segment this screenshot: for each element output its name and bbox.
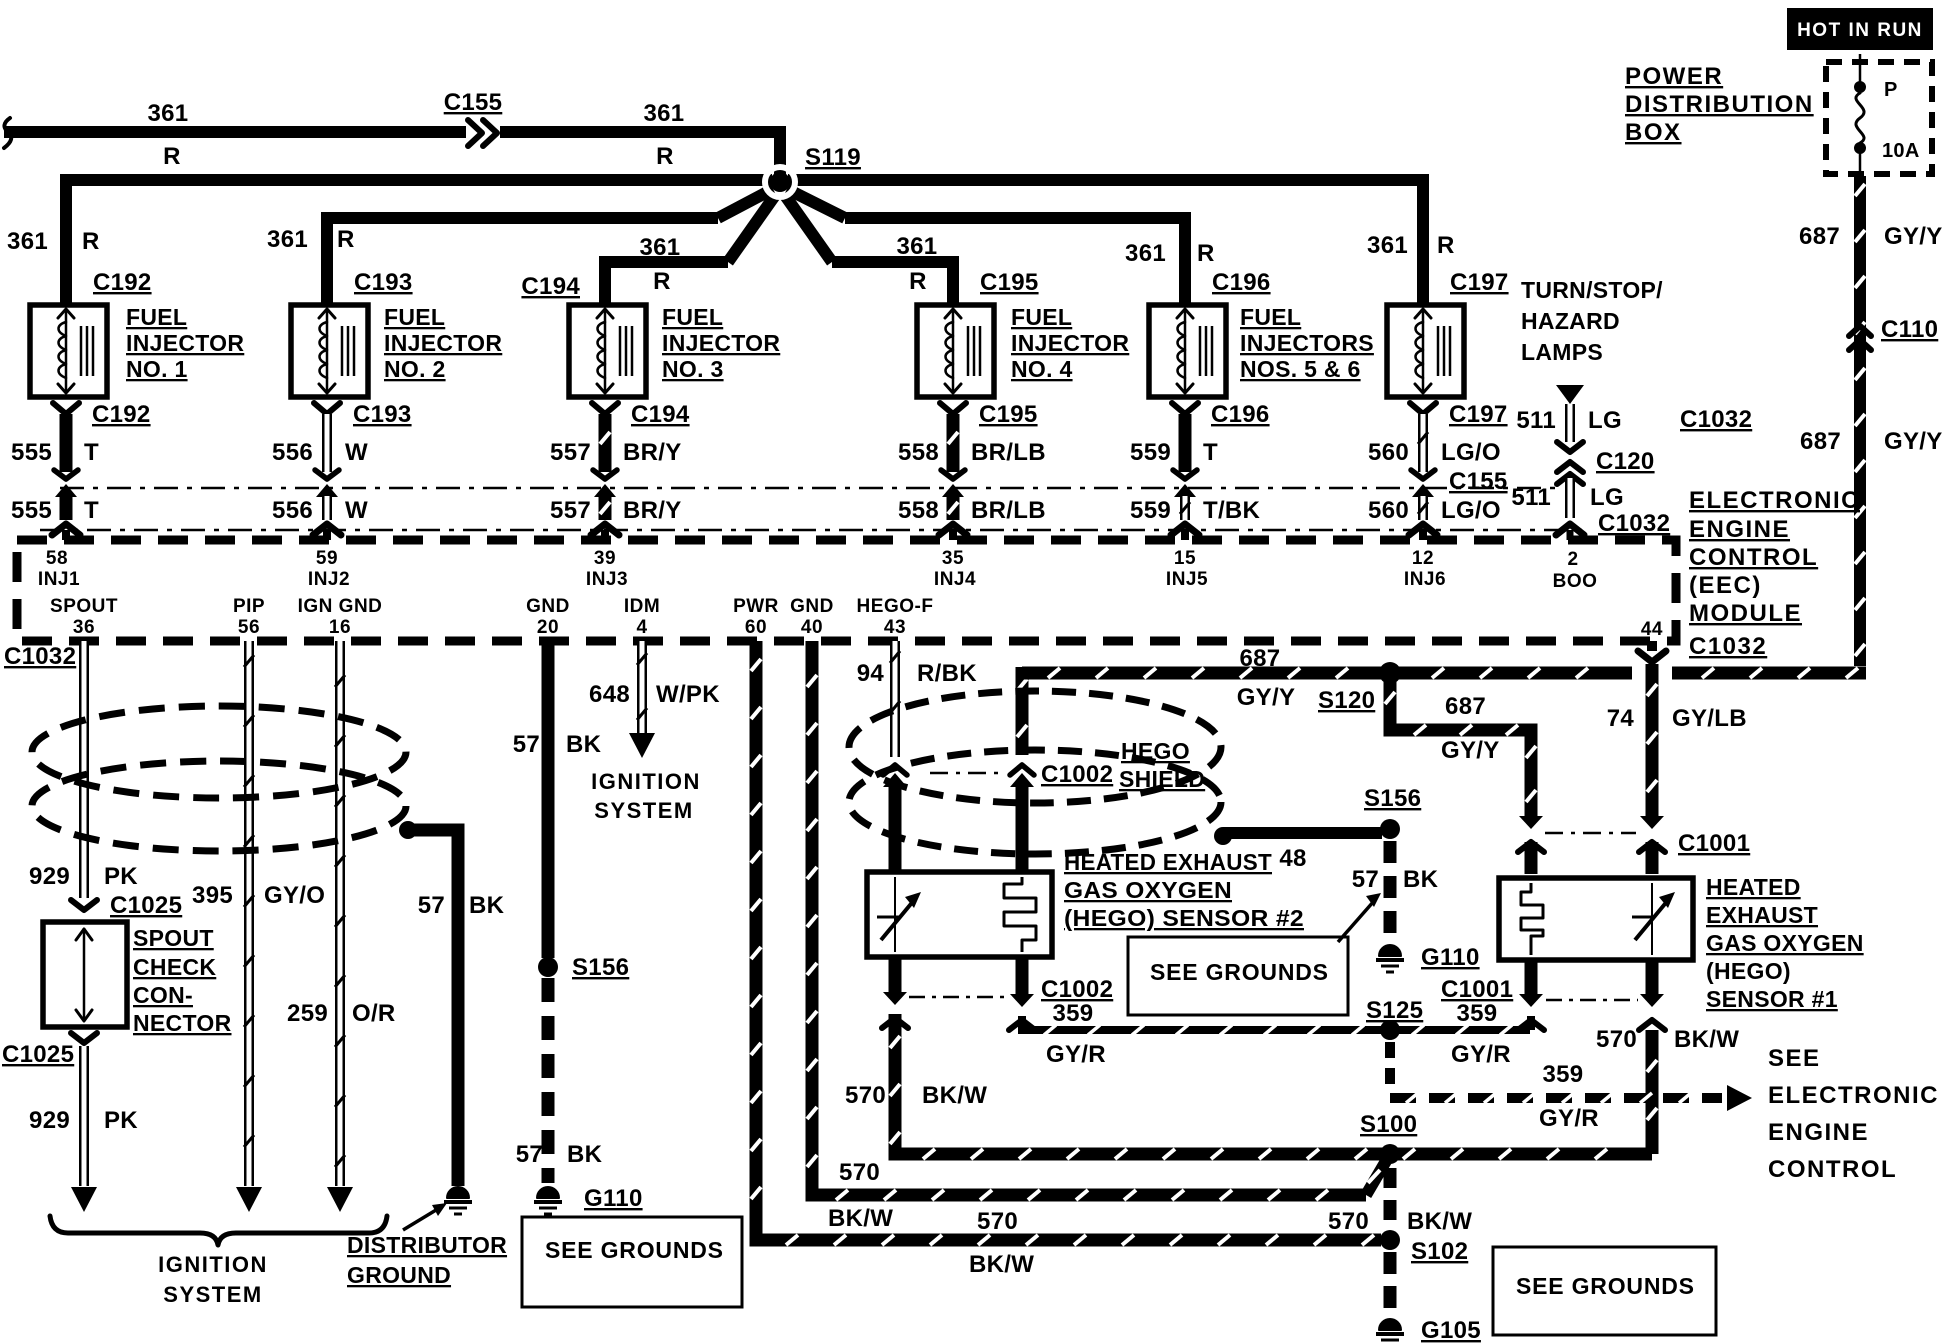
svg-text:GY/LB: GY/LB (1672, 705, 1747, 732)
svg-text:BK: BK (567, 1141, 603, 1168)
svg-text:560: 560 (1368, 497, 1409, 524)
svg-text:GAS OXYGEN: GAS OXYGEN (1706, 930, 1864, 956)
svg-text:CON-: CON- (133, 982, 193, 1008)
svg-text:57: 57 (1352, 866, 1379, 893)
svg-text:C193: C193 (353, 401, 412, 428)
svg-text:558: 558 (898, 439, 939, 466)
svg-text:C1025: C1025 (2, 1041, 74, 1068)
svg-text:361: 361 (644, 100, 685, 127)
svg-text:ENGINE: ENGINE (1689, 516, 1790, 543)
svg-text:C194: C194 (521, 273, 580, 300)
svg-text:C194: C194 (631, 401, 690, 428)
svg-text:15: 15 (1174, 548, 1196, 569)
svg-text:GROUND: GROUND (347, 1262, 451, 1288)
svg-text:IGNITION: IGNITION (591, 769, 701, 794)
svg-text:359: 359 (1053, 1000, 1094, 1027)
svg-text:W: W (345, 497, 368, 524)
svg-text:SEE GROUNDS: SEE GROUNDS (545, 1237, 724, 1263)
svg-text:NO. 2: NO. 2 (384, 356, 446, 382)
svg-text:T: T (84, 497, 99, 524)
svg-text:LG: LG (1588, 407, 1622, 434)
svg-text:G110: G110 (1421, 944, 1480, 971)
svg-text:44: 44 (1641, 619, 1663, 640)
svg-text:G105: G105 (1421, 1317, 1481, 1344)
svg-text:361: 361 (1125, 240, 1166, 267)
svg-text:43: 43 (884, 617, 906, 638)
svg-text:INJ6: INJ6 (1404, 569, 1446, 590)
svg-text:4: 4 (636, 617, 647, 638)
svg-text:57: 57 (516, 1141, 543, 1168)
svg-text:R/BK: R/BK (917, 660, 977, 687)
svg-text:SYSTEM: SYSTEM (594, 798, 693, 823)
svg-text:SENSOR #1: SENSOR #1 (1706, 986, 1838, 1012)
svg-text:555: 555 (11, 439, 52, 466)
svg-text:INJECTOR: INJECTOR (384, 330, 502, 356)
svg-text:SEE GROUNDS: SEE GROUNDS (1150, 959, 1329, 985)
svg-text:557: 557 (550, 439, 591, 466)
svg-text:361: 361 (148, 100, 189, 127)
svg-text:GY/Y: GY/Y (1884, 223, 1942, 250)
svg-text:40: 40 (801, 617, 823, 638)
svg-text:S156: S156 (1364, 785, 1421, 812)
svg-text:HOT IN RUN: HOT IN RUN (1797, 20, 1923, 41)
svg-text:GY/O: GY/O (264, 882, 325, 909)
svg-text:POWER: POWER (1625, 63, 1723, 90)
svg-text:94: 94 (857, 660, 885, 687)
svg-text:S156: S156 (572, 954, 629, 981)
svg-text:S119: S119 (805, 144, 861, 171)
svg-text:C155: C155 (1449, 468, 1508, 495)
svg-text:687: 687 (1240, 645, 1281, 672)
svg-text:36: 36 (73, 617, 95, 638)
svg-text:MODULE: MODULE (1689, 600, 1802, 627)
svg-text:NO. 1: NO. 1 (126, 356, 188, 382)
svg-text:GY/R: GY/R (1046, 1041, 1106, 1068)
svg-text:BK/W: BK/W (828, 1205, 893, 1232)
svg-text:NECTOR: NECTOR (133, 1010, 232, 1036)
svg-text:HAZARD: HAZARD (1521, 308, 1620, 334)
svg-text:INJ2: INJ2 (308, 569, 350, 590)
svg-text:INJ5: INJ5 (1166, 569, 1208, 590)
svg-text:C120: C120 (1596, 448, 1655, 475)
svg-text:PWR: PWR (733, 596, 779, 617)
svg-text:570: 570 (845, 1082, 886, 1109)
svg-text:PK: PK (104, 863, 138, 890)
svg-text:R: R (1437, 232, 1455, 259)
svg-text:BR/LB: BR/LB (971, 439, 1046, 466)
svg-text:PK: PK (104, 1107, 138, 1134)
svg-text:T: T (84, 439, 99, 466)
svg-text:511: 511 (1516, 407, 1556, 434)
svg-text:IDM: IDM (624, 596, 660, 617)
svg-text:C1032: C1032 (4, 643, 76, 670)
svg-text:GND: GND (526, 596, 570, 617)
svg-text:INJ3: INJ3 (586, 569, 628, 590)
svg-text:687: 687 (1445, 693, 1486, 720)
svg-text:361: 361 (1367, 232, 1408, 259)
svg-text:SPOUT: SPOUT (133, 925, 214, 951)
svg-text:S100: S100 (1360, 1111, 1417, 1138)
svg-text:LG/O: LG/O (1441, 497, 1501, 524)
svg-text:359: 359 (1457, 1000, 1498, 1027)
svg-text:GND: GND (790, 596, 834, 617)
svg-text:12: 12 (1412, 548, 1434, 569)
svg-text:C1002: C1002 (1041, 976, 1113, 1003)
svg-text:INJECTOR: INJECTOR (1011, 330, 1129, 356)
svg-text:BOO: BOO (1553, 571, 1598, 592)
svg-text:S102: S102 (1411, 1238, 1468, 1265)
svg-text:C193: C193 (354, 269, 413, 296)
svg-text:929: 929 (29, 863, 70, 890)
svg-text:361: 361 (640, 234, 681, 261)
svg-text:BK/W: BK/W (1674, 1026, 1739, 1053)
svg-text:C1001: C1001 (1678, 830, 1750, 857)
svg-text:GAS OXYGEN: GAS OXYGEN (1064, 877, 1232, 903)
svg-text:C195: C195 (980, 269, 1039, 296)
svg-text:560: 560 (1368, 439, 1409, 466)
svg-text:BK/W: BK/W (969, 1251, 1034, 1278)
svg-text:GY/Y: GY/Y (1237, 684, 1296, 711)
svg-text:GY/R: GY/R (1451, 1041, 1511, 1068)
svg-text:FUEL: FUEL (1240, 304, 1301, 330)
svg-text:2: 2 (1567, 549, 1578, 570)
svg-text:GY/R: GY/R (1539, 1105, 1599, 1132)
svg-text:C1032: C1032 (1689, 633, 1767, 660)
svg-text:LG/O: LG/O (1441, 439, 1501, 466)
svg-text:FUEL: FUEL (384, 304, 445, 330)
svg-text:R: R (656, 143, 674, 170)
svg-text:W: W (345, 439, 368, 466)
svg-text:557: 557 (550, 497, 591, 524)
svg-text:60: 60 (745, 617, 767, 638)
svg-text:10A: 10A (1882, 140, 1920, 162)
svg-text:GY/Y: GY/Y (1441, 737, 1500, 764)
svg-text:C195: C195 (979, 401, 1038, 428)
svg-text:NO. 3: NO. 3 (662, 356, 724, 382)
svg-text:929: 929 (29, 1107, 70, 1134)
svg-text:56: 56 (238, 617, 260, 638)
svg-text:ENGINE: ENGINE (1768, 1119, 1869, 1146)
svg-text:HEATED EXHAUST: HEATED EXHAUST (1064, 849, 1272, 875)
svg-text:INJECTOR: INJECTOR (662, 330, 780, 356)
svg-text:BOX: BOX (1625, 119, 1682, 146)
svg-text:39: 39 (594, 548, 616, 569)
svg-text:C196: C196 (1212, 269, 1271, 296)
svg-text:BK: BK (1403, 866, 1439, 893)
svg-text:57: 57 (513, 731, 540, 758)
svg-text:IGNITION: IGNITION (158, 1252, 268, 1277)
svg-text:570: 570 (1328, 1208, 1369, 1235)
svg-text:C192: C192 (92, 401, 151, 428)
svg-text:361: 361 (897, 233, 938, 260)
svg-text:57: 57 (418, 892, 445, 919)
svg-text:SHIELD: SHIELD (1119, 766, 1205, 792)
svg-text:C1032: C1032 (1680, 406, 1752, 433)
svg-text:BR/Y: BR/Y (623, 439, 682, 466)
svg-text:INJ1: INJ1 (38, 569, 80, 590)
svg-text:559: 559 (1130, 497, 1171, 524)
svg-text:FUEL: FUEL (126, 304, 187, 330)
svg-text:FUEL: FUEL (1011, 304, 1072, 330)
svg-text:687: 687 (1800, 428, 1841, 455)
svg-text:DISTRIBUTOR: DISTRIBUTOR (347, 1232, 507, 1258)
svg-text:SEE GROUNDS: SEE GROUNDS (1516, 1273, 1695, 1299)
svg-text:687: 687 (1799, 223, 1840, 250)
svg-text:R: R (1197, 240, 1215, 267)
svg-text:CHECK: CHECK (133, 954, 216, 980)
svg-text:EXHAUST: EXHAUST (1706, 902, 1818, 928)
svg-text:W/PK: W/PK (656, 681, 720, 708)
svg-text:R: R (82, 228, 100, 255)
svg-text:S120: S120 (1318, 687, 1375, 714)
svg-text:G110: G110 (584, 1185, 643, 1212)
svg-text:559: 559 (1130, 439, 1171, 466)
svg-text:58: 58 (46, 548, 68, 569)
svg-text:BR/LB: BR/LB (971, 497, 1046, 524)
svg-text:HEGO: HEGO (1121, 738, 1190, 764)
svg-text:SPOUT: SPOUT (50, 596, 118, 617)
svg-text:59: 59 (316, 548, 338, 569)
svg-text:(HEGO) SENSOR #2: (HEGO) SENSOR #2 (1064, 905, 1304, 931)
svg-text:INJECTOR: INJECTOR (126, 330, 244, 356)
svg-text:LG: LG (1590, 484, 1624, 511)
svg-text:ELECTRONIC: ELECTRONIC (1689, 487, 1860, 514)
svg-text:511: 511 (1511, 484, 1551, 511)
svg-text:16: 16 (329, 617, 351, 638)
svg-text:556: 556 (272, 497, 313, 524)
svg-text:BK: BK (469, 892, 505, 919)
svg-text:361: 361 (7, 228, 48, 255)
svg-text:C197: C197 (1449, 401, 1508, 428)
svg-text:T: T (1203, 439, 1218, 466)
svg-text:(HEGO): (HEGO) (1706, 958, 1791, 984)
svg-text:C1032: C1032 (1598, 510, 1670, 537)
svg-text:SYSTEM: SYSTEM (163, 1282, 262, 1307)
svg-text:74: 74 (1607, 705, 1635, 732)
svg-text:NOS. 5 & 6: NOS. 5 & 6 (1240, 356, 1361, 382)
svg-text:S125: S125 (1366, 997, 1423, 1024)
svg-text:FUEL: FUEL (662, 304, 723, 330)
svg-text:CONTROL: CONTROL (1768, 1156, 1897, 1183)
svg-text:570: 570 (977, 1208, 1018, 1235)
svg-text:INJ4: INJ4 (934, 569, 976, 590)
svg-text:C110: C110 (1881, 316, 1938, 343)
svg-text:PIP: PIP (233, 596, 265, 617)
svg-text:DISTRIBUTION: DISTRIBUTION (1625, 91, 1814, 118)
svg-text:BK/W: BK/W (1407, 1208, 1472, 1235)
svg-text:570: 570 (1596, 1026, 1637, 1053)
svg-text:P: P (1884, 79, 1898, 101)
svg-text:359: 359 (1543, 1061, 1584, 1088)
svg-text:558: 558 (898, 497, 939, 524)
svg-text:395: 395 (192, 882, 233, 909)
svg-text:HEATED: HEATED (1706, 874, 1801, 900)
svg-text:GY/Y: GY/Y (1884, 428, 1942, 455)
svg-text:BK/W: BK/W (922, 1082, 987, 1109)
svg-text:LAMPS: LAMPS (1521, 339, 1603, 365)
svg-text:C192: C192 (93, 269, 152, 296)
svg-text:C196: C196 (1211, 401, 1270, 428)
svg-text:SEE: SEE (1768, 1045, 1821, 1072)
svg-text:BK: BK (566, 731, 602, 758)
svg-text:259: 259 (287, 1000, 328, 1027)
svg-text:TURN/STOP/: TURN/STOP/ (1521, 277, 1663, 303)
svg-text:R: R (163, 143, 181, 170)
svg-text:(EEC): (EEC) (1689, 572, 1762, 599)
svg-text:NO. 4: NO. 4 (1011, 356, 1073, 382)
svg-text:R: R (653, 268, 671, 295)
svg-text:48: 48 (1279, 845, 1306, 872)
svg-text:INJECTORS: INJECTORS (1240, 330, 1374, 356)
svg-text:R: R (337, 226, 355, 253)
svg-text:C1002: C1002 (1041, 761, 1113, 788)
svg-text:HEGO-F: HEGO-F (857, 596, 934, 617)
svg-text:C1001: C1001 (1441, 976, 1513, 1003)
svg-text:648: 648 (589, 681, 630, 708)
svg-text:35: 35 (942, 548, 964, 569)
svg-text:20: 20 (537, 617, 559, 638)
svg-text:C197: C197 (1450, 269, 1509, 296)
svg-text:556: 556 (272, 439, 313, 466)
svg-text:R: R (909, 268, 927, 295)
svg-text:BR/Y: BR/Y (623, 497, 682, 524)
svg-text:O/R: O/R (352, 1000, 396, 1027)
svg-text:570: 570 (839, 1159, 880, 1186)
svg-text:CONTROL: CONTROL (1689, 544, 1818, 571)
svg-text:C155: C155 (444, 89, 503, 116)
svg-text:ELECTRONIC: ELECTRONIC (1768, 1082, 1939, 1109)
svg-text:555: 555 (11, 497, 52, 524)
svg-text:T/BK: T/BK (1203, 497, 1261, 524)
svg-text:C1025: C1025 (110, 892, 182, 919)
svg-text:361: 361 (267, 226, 308, 253)
svg-text:IGN GND: IGN GND (298, 596, 383, 617)
